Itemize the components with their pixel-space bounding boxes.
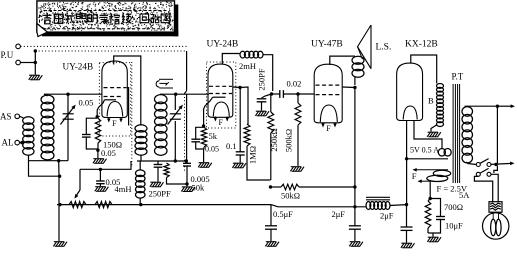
svg-text:0.05: 0.05 [101, 148, 116, 158]
svg-text:5V 0.5 A: 5V 0.5 A [410, 146, 439, 155]
svg-text:0.05: 0.05 [205, 145, 219, 154]
svg-text:P.U: P.U [1, 50, 14, 60]
svg-text:UY-24B: UY-24B [207, 40, 239, 50]
svg-text:500kΩ: 500kΩ [284, 129, 294, 152]
svg-text:10μF: 10μF [445, 221, 463, 231]
svg-text:UY-47B: UY-47B [311, 40, 343, 50]
svg-text:AL: AL [2, 138, 14, 148]
svg-text:F: F [219, 118, 224, 127]
svg-text:50kΩ: 50kΩ [281, 191, 300, 201]
svg-text:2μF: 2μF [380, 211, 394, 221]
svg-text:B: B [428, 96, 434, 106]
svg-text:F: F [412, 171, 417, 181]
svg-text:2mH: 2mH [239, 61, 256, 71]
svg-text:P.T: P.T [452, 72, 464, 82]
svg-text:5k: 5k [209, 131, 218, 141]
svg-text:2μF: 2μF [332, 209, 346, 219]
svg-text:KX-12B: KX-12B [405, 40, 438, 50]
svg-text:F: F [326, 124, 331, 133]
svg-text:250PF: 250PF [256, 68, 266, 90]
svg-text:0.5μF: 0.5μF [273, 209, 293, 219]
svg-text:250PF: 250PF [149, 189, 171, 199]
svg-text:UY-24B: UY-24B [63, 62, 94, 72]
svg-text:F: F [112, 119, 117, 128]
svg-text:4mH: 4mH [115, 184, 132, 194]
svg-text:250kΩ: 250kΩ [269, 128, 279, 151]
svg-text:0.05: 0.05 [79, 98, 94, 108]
svg-text:700Ω: 700Ω [444, 202, 463, 212]
svg-text:AS: AS [0, 112, 12, 122]
svg-text:L.S.: L.S. [376, 43, 392, 53]
svg-text:50k: 50k [192, 183, 206, 193]
svg-text:1MΩ: 1MΩ [248, 146, 258, 164]
svg-text:5A: 5A [459, 190, 470, 200]
svg-text:0.02: 0.02 [287, 78, 302, 88]
svg-text:0.1: 0.1 [226, 141, 237, 151]
